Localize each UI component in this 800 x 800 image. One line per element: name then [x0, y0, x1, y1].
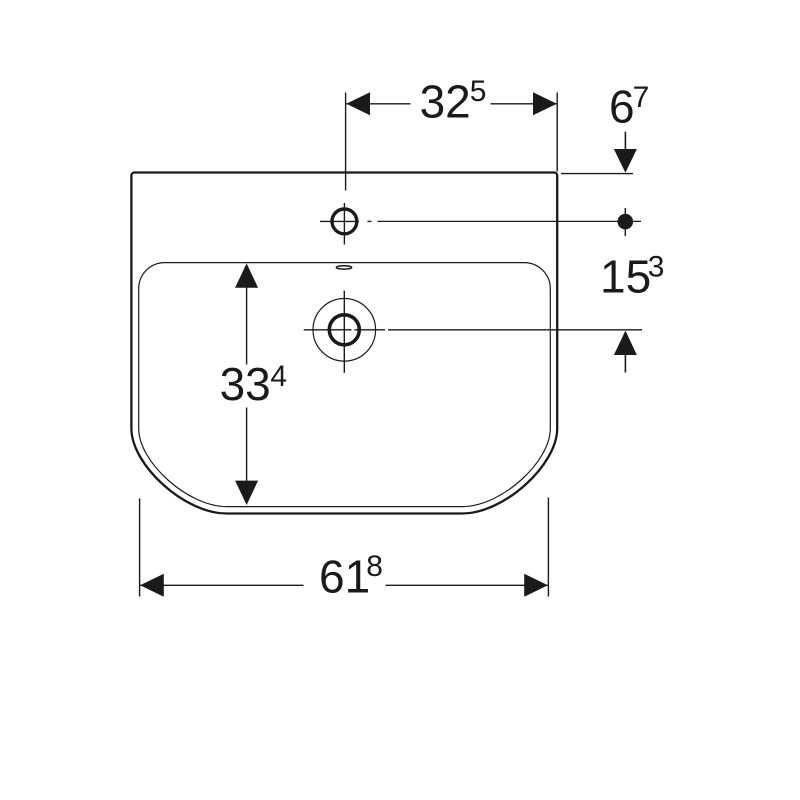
dimension 32.5 line left segment [346, 103, 410, 105]
dimension 15.3 dot terminator [618, 214, 634, 230]
tap centerline dash [368, 220, 372, 222]
overflow slot ellipse [336, 266, 351, 269]
svg-text:5: 5 [470, 75, 487, 108]
dot crosshair vertical [624, 208, 626, 236]
dimension 61.8 line right segment [386, 584, 548, 586]
svg-text:15: 15 [600, 251, 651, 303]
dimension 15.3 arrow shaft [624, 354, 626, 373]
dimension 33.4 line upper segment [246, 287, 248, 365]
dimension 6.7 down arrowhead [614, 149, 637, 173]
dimension 32.5 left arrowhead [346, 92, 370, 115]
washbasin inner bowl outline [139, 263, 551, 507]
drain crosshair horizontal right [355, 329, 386, 331]
svg-text:32: 32 [420, 75, 471, 127]
svg-text:8: 8 [366, 550, 383, 583]
dimension 32.5 left extension line [345, 93, 347, 191]
drain outer circle [313, 299, 376, 362]
svg-text:7: 7 [633, 81, 650, 114]
dimension 32.5 right arrowhead [533, 92, 557, 115]
svg-text:6: 6 [609, 80, 635, 132]
svg-text:61: 61 [319, 551, 370, 603]
dimension 6.7 extension line [561, 173, 633, 175]
dimension 61.8 left arrowhead [140, 574, 164, 597]
svg-text:3: 3 [648, 250, 665, 283]
svg-text:33: 33 [220, 358, 271, 410]
dimension 15.3 up arrowhead [614, 331, 637, 355]
dimension 61.8 left extension line [139, 498, 141, 596]
tap centerline to dot [378, 220, 642, 222]
dimension 33.4 line lower segment [246, 408, 248, 482]
drain crosshair horizontal left [304, 329, 352, 331]
drain inner ring [329, 315, 359, 345]
dimension 6.7 arrow shaft [624, 132, 626, 151]
drain centerline to arrow [388, 329, 642, 331]
dimension 61.8 right extension line [547, 498, 549, 597]
svg-text:4: 4 [270, 360, 287, 393]
tap hole circle [332, 209, 357, 234]
dimension 32.5 line right segment [491, 103, 557, 105]
dimension 61.8 line left segment [140, 584, 303, 586]
dimension 33.4 bottom arrowhead [235, 481, 258, 505]
tap hole crosshair horizontal [320, 220, 359, 222]
tap hole crosshair vertical [343, 203, 345, 245]
drain crosshair vertical [343, 291, 345, 373]
dimension 32.5 right extension line [556, 93, 558, 172]
washbasin outer outline [131, 173, 557, 514]
dimension 33.4 top arrowhead [235, 263, 258, 287]
dimension 61.8 right arrowhead [524, 574, 548, 597]
